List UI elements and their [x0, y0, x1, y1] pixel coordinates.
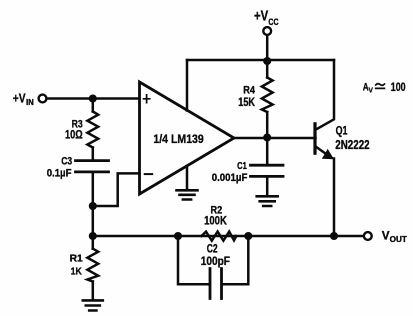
label 1/4 LM139 [153, 132, 204, 146]
node B (inverting input junction) [89, 202, 97, 210]
wire VIN to op-amp + input [47, 97, 140, 100]
wire emitter to node H [333, 159, 336, 237]
node D (VCC rail junction) [263, 57, 271, 65]
wire VCC to node D [266, 35, 269, 61]
capacitor C2 [210, 269, 222, 299]
approx-equal symbol [376, 84, 385, 89]
wire op-amp V- to ground [186, 166, 189, 190]
transistor Q1 emitter arrow [322, 149, 334, 159]
resistor R3 [87, 112, 98, 148]
wire C2 right branch [223, 236, 248, 284]
transistor Q1 collector [316, 60, 334, 130]
svg-text:100pF: 100pF [201, 254, 230, 268]
wire feedback line (node C to VOUT) [93, 235, 364, 238]
label C2 [201, 243, 230, 267]
ground (C1) [257, 196, 278, 206]
wire R4 to node E [266, 112, 269, 138]
terminal VOUT [364, 232, 372, 240]
node A (VIN/R3 junction) [89, 94, 97, 102]
svg-text:0.1µF: 0.1µF [47, 167, 72, 179]
svg-text:+V: +V [254, 9, 268, 25]
label R2 [204, 205, 227, 228]
wire C2 left branch [178, 236, 208, 284]
svg-text:1/4 LM139: 1/4 LM139 [153, 132, 204, 146]
svg-text:1K: 1K [71, 266, 83, 278]
svg-text:100: 100 [391, 82, 406, 94]
svg-text:15K: 15K [238, 97, 255, 109]
svg-text:R1: R1 [70, 254, 84, 265]
wire node B to op-amp - input [93, 173, 140, 206]
svg-text:R4: R4 [243, 85, 255, 97]
label Av gain [363, 81, 406, 94]
svg-text:Q1: Q1 [336, 126, 348, 138]
node H (emitter/output junction) [330, 232, 338, 240]
svg-text:V: V [369, 86, 373, 95]
terminal +VCC [263, 27, 271, 35]
label R3 [65, 119, 83, 142]
capacitor C3 [76, 161, 109, 172]
wire node E to C1 [266, 138, 269, 166]
ground (R1) [83, 300, 103, 310]
svg-text:IN: IN [26, 98, 34, 107]
terminal +VIN [39, 95, 47, 103]
capacitor C1 [251, 165, 284, 176]
resistor R2 [202, 232, 237, 241]
label +VCC [254, 9, 279, 27]
transistor Q1 base bar [313, 124, 316, 153]
wire R3 to C3 [92, 148, 95, 161]
op-amp - pin mark [145, 173, 153, 175]
wire node D to R4 [266, 61, 269, 78]
wire node C to R1 [92, 236, 95, 249]
wire op-amp V+ to top rail [186, 60, 189, 111]
node F (R2 left) [174, 232, 182, 240]
label C1 [212, 160, 248, 184]
wire R1 to ground [92, 282, 95, 301]
svg-text:C1: C1 [237, 160, 247, 172]
svg-text:C3: C3 [61, 156, 72, 168]
wire top rail [187, 59, 334, 62]
svg-text:0.001µF: 0.001µF [212, 172, 248, 184]
label +VIN [13, 90, 34, 107]
wire C1 to ground [266, 176, 269, 196]
wire op-amp output to Q1 base [234, 137, 316, 140]
resistor R1 [87, 249, 98, 282]
svg-text:+V: +V [13, 90, 26, 105]
wire node A to R3 [92, 99, 95, 112]
op-amp + pin mark [144, 95, 150, 103]
svg-text:CC: CC [268, 17, 278, 27]
op-amp U1 1/4 LM139 [140, 82, 235, 194]
label Q1 [335, 126, 369, 152]
svg-text:V: V [382, 229, 390, 243]
label R1 [70, 254, 84, 278]
svg-text:2N2222: 2N2222 [335, 138, 369, 152]
transistor Q1 emitter [316, 147, 331, 158]
node C (R1/feedback junction) [89, 232, 97, 240]
svg-text:10Ω: 10Ω [65, 129, 83, 141]
ground (op-amp) [177, 190, 198, 199]
wire C3 down to node C [92, 172, 95, 236]
node E (op-amp output node) [263, 133, 271, 141]
label C3 [47, 156, 72, 180]
label R4 [238, 85, 255, 110]
resistor R4 [262, 78, 273, 113]
label VOUT [382, 229, 407, 244]
svg-text:OUT: OUT [390, 235, 407, 244]
svg-text:100K: 100K [204, 214, 227, 228]
node G (R2 right) [244, 232, 252, 240]
